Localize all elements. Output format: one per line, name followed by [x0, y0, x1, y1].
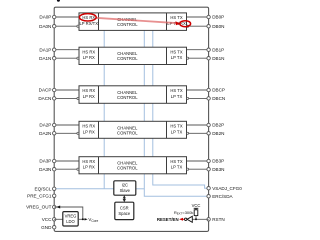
svg-text:HS TX: HS TX [170, 15, 182, 20]
bus ERC/SDA vertical net [144, 30, 207, 196]
pin ERC/SDA [207, 194, 234, 199]
block lane C row [79, 86, 187, 104]
pin DB2P [207, 123, 224, 128]
pin DB3P [207, 159, 224, 164]
svg-text:EQ/SCL: EQ/SCL [35, 186, 52, 191]
pin DB1N [207, 56, 225, 61]
pin DA2P [39, 123, 56, 128]
block lane 1 HS RX/LP RX [82, 50, 95, 61]
wire lane 1 A-side P [54, 49, 79, 51]
svg-text:DA2N: DA2N [39, 131, 51, 136]
svg-text:LP RX: LP RX [83, 129, 95, 134]
svg-text:RESET/EN: RESET/EN [157, 217, 179, 222]
wire LDO to Vcore [78, 218, 85, 220]
pin DBCN [207, 96, 225, 101]
svg-text:VREG: VREG [65, 213, 77, 218]
block lane 2 HS TX/LP TX [170, 124, 182, 135]
wire VREG_OUT net [54, 207, 83, 219]
block lane C HS RX/LP RX [82, 88, 95, 99]
svg-text:DA2P: DA2P [39, 123, 51, 128]
svg-text:DBCN: DBCN [212, 96, 225, 101]
svg-text:DA3N: DA3N [39, 167, 51, 172]
svg-text:PRE_CFG1: PRE_CFG1 [27, 193, 52, 198]
svg-text:LP RX: LP RX [83, 165, 95, 170]
wire I2C-CSR double arrow [123, 195, 126, 202]
svg-text:DA0N: DA0N [39, 24, 51, 29]
wire lane 3 A-side P [54, 160, 79, 162]
annotation ellipse HS RX [79, 14, 96, 21]
wire lane 2 A-side P [54, 124, 79, 126]
svg-text:HS TX: HS TX [170, 159, 182, 164]
svg-text:DB0N: DB0N [212, 24, 224, 29]
svg-text:LDO: LDO [66, 219, 75, 224]
wire VCC to LDO [54, 218, 63, 220]
pin DACP [39, 88, 56, 93]
svg-text:VCC: VCC [192, 203, 201, 208]
wire lane C A-side N [54, 97, 78, 99]
pin DA3N [39, 167, 56, 172]
wire lane 0 B-side N [188, 25, 209, 27]
block lane 3 CHANNEL CONTROL [117, 161, 138, 171]
port lane 1 B-side N LP port [187, 57, 189, 59]
pin VREG_OUT [26, 205, 56, 210]
svg-text:LP TX: LP TX [171, 94, 183, 99]
block lane 1 CHANNEL CONTROL [117, 51, 138, 61]
svg-text:DA0P: DA0P [39, 15, 51, 20]
pin DA1N [39, 56, 56, 61]
pin DA3P [39, 159, 56, 164]
svg-text:DB2N: DB2N [212, 131, 224, 136]
IC outline [54, 7, 208, 231]
pin DB2N [207, 131, 225, 136]
block lane 1 row [79, 47, 187, 64]
svg-text:VCore: VCore [88, 217, 98, 223]
svg-text:DA1P: DA1P [39, 47, 51, 52]
svg-text:LP RX: LP RX [83, 55, 95, 60]
wire lane 2 B-side N [188, 132, 209, 134]
wire lane 1 B-side N [188, 57, 209, 59]
svg-text:VREG_OUT: VREG_OUT [26, 205, 51, 210]
svg-text:HS RX: HS RX [82, 124, 95, 129]
svg-text:DACP: DACP [39, 88, 52, 93]
svg-text:DA3P: DA3P [39, 159, 51, 164]
pin DB0N [207, 24, 225, 29]
block VREG LDO [63, 212, 78, 226]
wire Rext to RSTN [192, 216, 208, 220]
wire lane 1 B-side P [187, 49, 209, 51]
port lane 3 A-side N LP port [77, 168, 79, 170]
block CSR Space [115, 202, 134, 219]
port lane 0 A-side N LP port [77, 25, 79, 27]
wire lane 0 A-side P [54, 16, 79, 18]
wire EQ/SCL to I2C slave [54, 188, 114, 190]
inverter RSTN buffer [185, 216, 193, 222]
pin DA0P [39, 15, 56, 20]
svg-text:HS TX: HS TX [170, 50, 182, 55]
block lane 2 HS RX/LP RX [82, 124, 95, 135]
wire lane 0 B-side P [187, 16, 209, 18]
svg-text:LP TX: LP TX [171, 165, 183, 170]
svg-text:LP TX: LP TX [171, 129, 183, 134]
pin DB0P [207, 15, 224, 20]
wire lane 3 B-side P [187, 160, 209, 162]
svg-text:HS RX: HS RX [82, 159, 95, 164]
arrow Vcore [85, 218, 88, 220]
pin VCC [42, 217, 56, 222]
svg-text:GND: GND [41, 225, 52, 230]
annotation ellipse RX [180, 21, 191, 27]
bus VSADJ vertical net [153, 30, 207, 188]
wire lane 0 A-side N [54, 25, 78, 27]
svg-text:VSADJ_CFG0: VSADJ_CFG0 [212, 186, 242, 191]
port lane 2 B-side N LP port [187, 132, 189, 134]
block lane C HS TX/LP TX [170, 88, 182, 99]
pin PRE_CFG1 [27, 193, 56, 198]
arrow VREG_OUT output [56, 206, 60, 209]
port lane 1 A-side N LP port [77, 57, 79, 59]
pin DB1P [207, 47, 224, 52]
pin RSTN [207, 217, 225, 222]
annotation line HS RX to RX [96, 18, 178, 23]
svg-text:HS RX: HS RX [82, 88, 95, 93]
svg-text:REXT=300k: REXT=300k [174, 210, 194, 216]
block lane 0 row [79, 13, 187, 31]
block lane 3 HS RX/LP RX [82, 159, 95, 170]
block lane 2 CHANNEL CONTROL [117, 125, 138, 135]
pin DA2N [39, 131, 56, 136]
wire lane 2 A-side N [54, 132, 78, 134]
svg-text:DB2P: DB2P [212, 123, 224, 128]
pin DBCP [207, 88, 225, 93]
svg-text:DB0P: DB0P [212, 15, 224, 20]
svg-text:CONTROL: CONTROL [117, 22, 138, 27]
svg-text:DA1N: DA1N [39, 56, 51, 61]
port lane C B-side N LP port [187, 97, 189, 99]
junction VREG out [82, 218, 84, 220]
port lane 2 A-side N LP port [77, 132, 79, 134]
cropped text fragment above figure [57, 0, 60, 2]
port lane C A-side N LP port [77, 97, 79, 99]
block lane 1 HS TX/LP TX [170, 50, 182, 61]
pin DA0N [39, 24, 56, 29]
wire lane C A-side P [54, 89, 79, 91]
wire lane 2 B-side P [187, 124, 209, 126]
junction RSTN node [195, 218, 197, 220]
port lane 3 B-side N LP port [187, 168, 189, 170]
wire lane C B-side N [188, 97, 209, 99]
bus EQ/SCL vertical net [103, 30, 105, 188]
svg-text:RSTN: RSTN [212, 217, 225, 222]
svg-text:HS TX: HS TX [170, 88, 182, 93]
svg-text:CONTROL: CONTROL [117, 166, 138, 171]
pin VSADJ_CFG0 [207, 186, 242, 191]
svg-text:DB1N: DB1N [212, 56, 224, 61]
resistor Rext pull-up [194, 210, 198, 216]
block lane 3 row [79, 157, 187, 174]
svg-text:HS TX: HS TX [170, 124, 182, 129]
svg-text:LP RX: LP RX [83, 94, 95, 99]
annotation arrowhead [175, 21, 180, 25]
wire lane 3 B-side N [188, 168, 209, 170]
block lane 2 row [79, 121, 187, 138]
svg-text:DB1P: DB1P [212, 47, 224, 52]
svg-text:Space: Space [118, 211, 130, 216]
pin DACN [38, 96, 56, 101]
svg-text:ERC/SDA: ERC/SDA [212, 194, 233, 199]
pin EQ/SCL [35, 186, 56, 191]
svg-text:CONTROL: CONTROL [117, 56, 138, 61]
svg-text:CSR: CSR [120, 205, 129, 210]
block I2C Slave U-I2C [114, 181, 136, 195]
pin GND [41, 225, 56, 230]
svg-text:LP TX: LP TX [171, 55, 183, 60]
block lane 0 CHANNEL CONTROL [117, 17, 138, 27]
svg-text:I2C: I2C [122, 183, 128, 188]
svg-text:DB3N: DB3N [212, 167, 224, 172]
svg-text:Slave: Slave [120, 188, 131, 193]
wire lane 3 A-side N [54, 168, 78, 170]
pin DA1P [39, 47, 56, 52]
wire lane C B-side P [187, 89, 209, 91]
svg-text:DACN: DACN [38, 96, 51, 101]
block lane 3 HS TX/LP TX [170, 159, 182, 170]
svg-text:VCC: VCC [42, 217, 52, 222]
svg-text:DB3P: DB3P [212, 159, 224, 164]
wire I2C slave to SDA bus [136, 188, 145, 190]
block lane 0 HS RX/LP RX [79, 15, 98, 26]
svg-text:CONTROL: CONTROL [117, 130, 138, 135]
svg-text:CONTROL: CONTROL [117, 95, 138, 100]
wire lane 1 A-side N [54, 57, 78, 59]
power VCC symbol [194, 208, 199, 210]
svg-text:HS RX: HS RX [82, 50, 95, 55]
svg-text:DBCP: DBCP [212, 88, 225, 93]
port lane 0 B-side N LP port [187, 25, 189, 27]
pin DB3N [207, 167, 225, 172]
annotation RESET/EN arrow [179, 218, 184, 221]
block lane C CHANNEL CONTROL [117, 90, 138, 100]
block lane 0 HS TX/LP TX [167, 15, 186, 26]
